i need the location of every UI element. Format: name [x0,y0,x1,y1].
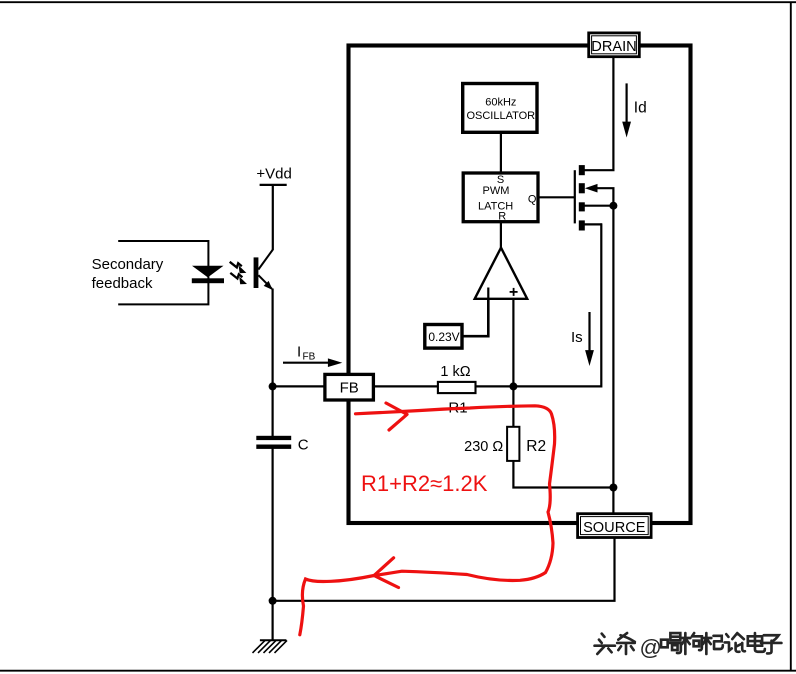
wire body rail down to SOURCE box [612,206,614,514]
svg-text:SOURCE: SOURCE [583,520,646,536]
svg-text:I: I [297,343,301,360]
node MOSFET body junction dot [609,202,617,210]
wire phototransistor emitter down to FB node [272,289,274,387]
FB terminal box [325,374,374,400]
red arrowhead pointing left [374,558,399,588]
MOSFET Q1 body arrow [585,184,598,193]
svg-text:OSCILLATOR: OSCILLATOR [466,110,535,122]
photon arrow lower [230,273,247,284]
svg-text:0.23V: 0.23V [428,330,459,344]
wire FB node down to capacitor C [272,386,274,436]
wire SOURCE box to ground rail [273,538,615,601]
svg-text:C: C [298,436,309,453]
svg-text:Secondary: Secondary [92,256,164,273]
wire R1 to node A [475,385,513,387]
svg-text:1 kΩ: 1 kΩ [440,364,470,380]
comparator U2 [475,248,528,299]
red annotation loop path [300,406,555,635]
svg-text:Id: Id [634,99,647,116]
label Secondary feedback [92,256,164,292]
svg-text:+Vdd: +Vdd [256,165,291,182]
SOURCE terminal box [578,514,652,538]
wire MOSFET source stub [584,223,602,225]
wire PWM latch Q output to MOSFET gate [538,196,575,198]
current arrow Is [585,312,594,366]
reference box 0.23V [425,325,462,349]
current arrow Id [622,83,631,137]
photon arrow upper [230,262,247,273]
node source sense junction dot [609,484,617,492]
label IFB [297,343,316,362]
wire R2 bottom to source sense node [513,461,613,488]
resistor R2 [507,427,519,461]
svg-text:@: @ [640,635,662,660]
comparator plus input marker [510,288,518,296]
resistor R1 [438,382,476,393]
svg-text:LATCH: LATCH [478,201,513,213]
capacitor C [256,436,291,449]
svg-text:Is: Is [571,329,583,346]
svg-text:R: R [498,211,506,223]
svg-text:feedback: feedback [92,275,153,292]
wire oscillator to PWM latch S input [500,132,502,173]
MOSFET Q1 channel segments [579,165,585,230]
MOSFET Q1 gate bar [574,170,576,223]
svg-text:60kHz: 60kHz [485,97,516,109]
node ground junction dot [269,597,277,605]
DRAIN terminal box [589,33,640,57]
red arrowhead pointing right [386,403,407,430]
svg-text:PWM: PWM [483,185,510,197]
wire 0.23V reference to comparator inverting input [462,288,488,337]
svg-text:FB: FB [340,380,359,397]
node FB junction dot [269,382,277,390]
wire FB node to FB box [273,385,325,387]
wire capacitor C to ground node [272,448,274,601]
wire MOSFET body diode to body rail [597,188,614,206]
wire MOSFET body stub [584,205,613,207]
svg-text:R2: R2 [526,438,546,455]
wire MOSFET drain to DRAIN box [584,57,613,170]
secondary feedback bracket [118,241,208,304]
wire ground node to ground symbol [272,601,274,640]
svg-text:DRAIN: DRAIN [591,39,636,55]
svg-text:FB: FB [303,352,316,363]
wire +Vdd to phototransistor collector [272,185,274,250]
wire node A to MOSFET source branch [513,223,601,386]
phototransistor Q2 [254,250,273,291]
node A junction dot R1-R2 [509,382,517,390]
PWM latch block [463,173,538,222]
wire PWM latch R input to comparator apex [500,221,502,250]
LED D1 of optocoupler [192,266,224,283]
svg-text:230 Ω: 230 Ω [464,439,503,455]
current arrow IFB [283,358,342,367]
oscillator block 60kHz [463,84,537,133]
PWM latch label [478,185,513,213]
supply +Vdd [256,165,291,185]
IC body outline U1 [349,46,691,524]
wire comparator non-inverting input down to node and R2 [512,299,514,427]
svg-text:Q: Q [528,194,537,206]
watermark [595,633,782,654]
svg-text:R1+R2≈1.2K: R1+R2≈1.2K [361,471,488,496]
ground [253,640,288,653]
wire FB box to R1 [373,385,437,387]
